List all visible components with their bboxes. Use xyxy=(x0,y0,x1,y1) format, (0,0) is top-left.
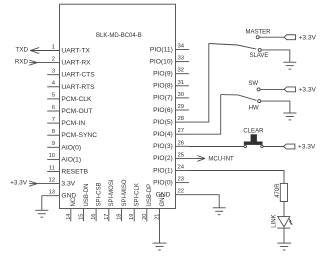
svg-text:8: 8 xyxy=(52,129,56,135)
svg-text:4: 4 xyxy=(52,81,56,87)
power +3.3V tag (SW) xyxy=(284,87,316,94)
switch S2 HW contact xyxy=(249,100,290,113)
pin 6 PCM-OUT xyxy=(47,105,92,115)
svg-text:13: 13 xyxy=(48,190,55,196)
pin 2 UART-RX xyxy=(37,56,91,66)
pin 9 AIO(0) xyxy=(47,141,81,151)
wire button S3 to +3.3V xyxy=(263,146,283,148)
pin 11 RESETB xyxy=(47,165,88,175)
pin 7 PCM-IN xyxy=(47,117,85,127)
svg-text:14: 14 xyxy=(66,214,72,220)
svg-text:PIO(2): PIO(2) xyxy=(153,155,173,162)
ground (HW) xyxy=(283,113,296,120)
svg-text:27: 27 xyxy=(178,128,185,134)
svg-text:28: 28 xyxy=(178,116,185,122)
svg-text:+3.3V: +3.3V xyxy=(298,144,316,151)
switch S1 MASTER contact xyxy=(245,29,284,38)
pin 30 PIO(7) xyxy=(153,92,189,102)
svg-text:PCM-OUT: PCM-OUT xyxy=(61,108,92,115)
pin 21 GND xyxy=(155,193,166,244)
power +3.3V tag (MASTER) xyxy=(284,34,316,41)
svg-text:30: 30 xyxy=(178,92,185,98)
svg-text:9: 9 xyxy=(52,141,55,147)
svg-text:3.3V: 3.3V xyxy=(61,181,75,188)
svg-text:UART-TX: UART-TX xyxy=(61,48,90,55)
pin 20 USB-DP xyxy=(142,184,153,221)
pin 8 PCM-SYNC xyxy=(47,129,97,139)
pin 18 SPI-MISO xyxy=(117,179,128,221)
pin 5 PCM-CLK xyxy=(47,93,92,103)
svg-text:1: 1 xyxy=(52,44,55,50)
pin 1 UART-TX xyxy=(30,44,90,54)
pin 33 PIO(10) xyxy=(149,56,189,66)
pin 19 SPI-CLK xyxy=(129,183,140,221)
svg-text:7: 7 xyxy=(52,117,55,123)
svg-text:PIO(4): PIO(4) xyxy=(153,131,173,138)
svg-text:+3.3V: +3.3V xyxy=(299,87,317,94)
pin 29 PIO(6) xyxy=(153,104,189,114)
svg-text:25: 25 xyxy=(178,152,185,158)
power +3.3V to pin 12 xyxy=(10,180,37,187)
switch S2 lever xyxy=(221,95,257,101)
svg-text:15: 15 xyxy=(79,214,85,220)
svg-text:22: 22 xyxy=(178,189,185,195)
svg-text:PCM-CLK: PCM-CLK xyxy=(61,96,92,103)
svg-text:5: 5 xyxy=(52,93,56,99)
pin 26 PIO(3) xyxy=(153,140,189,150)
svg-text:PIO(3): PIO(3) xyxy=(153,143,173,150)
svg-text:SPI-CSB: SPI-CSB xyxy=(97,182,103,206)
port TXD (output arrow) xyxy=(16,46,40,53)
svg-text:16: 16 xyxy=(91,214,97,220)
svg-text:6: 6 xyxy=(52,105,56,111)
pin 3 UART-CTS xyxy=(47,69,95,79)
svg-text:19: 19 xyxy=(129,214,135,220)
svg-text:NC: NC xyxy=(71,197,77,206)
LED D1 LINK xyxy=(271,214,292,228)
svg-text:PIO(9): PIO(9) xyxy=(153,71,173,78)
ground (SLAVE) xyxy=(283,62,296,69)
svg-text:RXD: RXD xyxy=(15,58,29,65)
svg-text:HW: HW xyxy=(249,106,259,112)
svg-text:21: 21 xyxy=(155,214,161,220)
pin 12 3.3V xyxy=(37,177,75,187)
svg-text:+3.3V: +3.3V xyxy=(299,34,317,41)
pin 25 PIO(2) xyxy=(153,152,189,162)
svg-text:PIO(1): PIO(1) xyxy=(153,167,173,174)
pin 32 PIO(9) xyxy=(153,68,189,78)
svg-text:CLEAR: CLEAR xyxy=(243,128,264,134)
ground at pin 13 xyxy=(35,196,48,218)
svg-text:26: 26 xyxy=(178,140,185,146)
svg-text:AIO(1): AIO(1) xyxy=(61,156,81,163)
svg-text:11: 11 xyxy=(49,165,55,171)
pin 31 PIO(8) xyxy=(153,80,189,90)
IC U1 BLK-MD-BC04-B body xyxy=(60,4,176,208)
svg-text:GND: GND xyxy=(160,193,166,207)
svg-text:PIO(11): PIO(11) xyxy=(150,46,173,53)
wire pin 27 to switch S2 xyxy=(189,95,221,135)
svg-text:2: 2 xyxy=(52,56,55,62)
pin 22 GND xyxy=(156,189,189,199)
svg-text:LINK: LINK xyxy=(271,214,277,227)
svg-text:SPI-CLK: SPI-CLK xyxy=(135,183,141,206)
svg-text:3: 3 xyxy=(52,69,56,75)
pin 27 PIO(4) xyxy=(153,128,189,138)
svg-text:RESETB: RESETB xyxy=(61,169,88,176)
wire pin 22 to ground xyxy=(189,195,219,208)
svg-text:SPI-MOSI: SPI-MOSI xyxy=(109,179,115,206)
pin 34 PIO(11) xyxy=(150,44,189,54)
resistor R1 470R xyxy=(275,183,288,202)
svg-text:PCM-IN: PCM-IN xyxy=(61,120,85,127)
pin 28 PIO(5) xyxy=(153,116,189,126)
svg-text:PIO(10): PIO(10) xyxy=(149,58,172,65)
pin 14 NC xyxy=(66,197,77,221)
pin 10 AIO(1) xyxy=(47,153,81,163)
svg-text:18: 18 xyxy=(117,214,123,220)
svg-text:23: 23 xyxy=(178,177,185,183)
pin 4 UART-RTS xyxy=(47,81,95,91)
svg-text:12: 12 xyxy=(48,177,55,183)
svg-text:PIO(5): PIO(5) xyxy=(153,119,173,126)
pin 15 USB-DN xyxy=(79,183,90,221)
wire pin 26 to button S3 xyxy=(189,146,244,148)
svg-text:UART-RX: UART-RX xyxy=(61,60,91,67)
svg-text:SPI-MISO: SPI-MISO xyxy=(122,179,128,206)
svg-text:31: 31 xyxy=(178,80,185,86)
svg-text:33: 33 xyxy=(178,56,185,62)
ground (pin 21) xyxy=(153,243,167,250)
svg-text:29: 29 xyxy=(178,104,185,110)
port RXD (input arrow) xyxy=(15,58,37,65)
pushbutton S3 CLEAR xyxy=(243,128,264,147)
svg-text:AIO(0): AIO(0) xyxy=(61,144,81,151)
wire LED to ground xyxy=(283,228,285,243)
switch S2 SW contact xyxy=(248,81,284,91)
svg-text:17: 17 xyxy=(104,214,110,220)
wire pin 24 to resistor R1 xyxy=(189,171,284,184)
svg-text:20: 20 xyxy=(142,214,148,220)
svg-text:TXD: TXD xyxy=(16,46,29,53)
svg-text:PIO(7): PIO(7) xyxy=(153,95,173,102)
svg-text:PIO(0): PIO(0) xyxy=(153,179,173,186)
svg-text:+3.3V: +3.3V xyxy=(10,180,28,187)
svg-text:UART-CTS: UART-CTS xyxy=(61,72,95,79)
svg-text:USB-DP: USB-DP xyxy=(147,184,153,207)
svg-text:SLAVE: SLAVE xyxy=(249,53,268,59)
svg-text:BLK-MD-BC04-B: BLK-MD-BC04-B xyxy=(96,33,142,39)
ground (pin 22) xyxy=(213,208,226,215)
pin 17 SPI-MOSI xyxy=(104,179,115,221)
port MCU-INT from pin 25 xyxy=(189,156,234,163)
pin 16 SPI-CSB xyxy=(91,182,102,221)
svg-text:24: 24 xyxy=(178,165,185,171)
svg-text:PCM-SYNC: PCM-SYNC xyxy=(61,132,97,139)
svg-text:MCU-INT: MCU-INT xyxy=(208,156,234,162)
svg-text:34: 34 xyxy=(178,44,185,50)
power +3.3V tag (CLEAR) xyxy=(284,144,316,151)
switch S1 SLAVE contact xyxy=(249,48,289,62)
svg-text:PIO(8): PIO(8) xyxy=(153,83,173,90)
svg-text:UART-RTS: UART-RTS xyxy=(61,84,95,91)
ground (LED) xyxy=(277,243,291,250)
pin 23 PIO(0) xyxy=(153,177,189,187)
svg-text:USB-DN: USB-DN xyxy=(84,183,90,206)
svg-text:10: 10 xyxy=(48,153,55,159)
svg-text:PIO(6): PIO(6) xyxy=(153,107,173,114)
svg-text:SW: SW xyxy=(248,81,258,87)
pin 24 PIO(1) xyxy=(153,165,189,175)
svg-text:MASTER: MASTER xyxy=(245,29,271,35)
switch S1 lever xyxy=(209,44,256,50)
wire R1 to LED D1 xyxy=(283,202,285,217)
svg-text:470R: 470R xyxy=(275,183,281,198)
wire pin 28 to switch S1 xyxy=(189,44,209,123)
pin 13 GND xyxy=(42,190,77,200)
svg-text:32: 32 xyxy=(178,68,185,74)
